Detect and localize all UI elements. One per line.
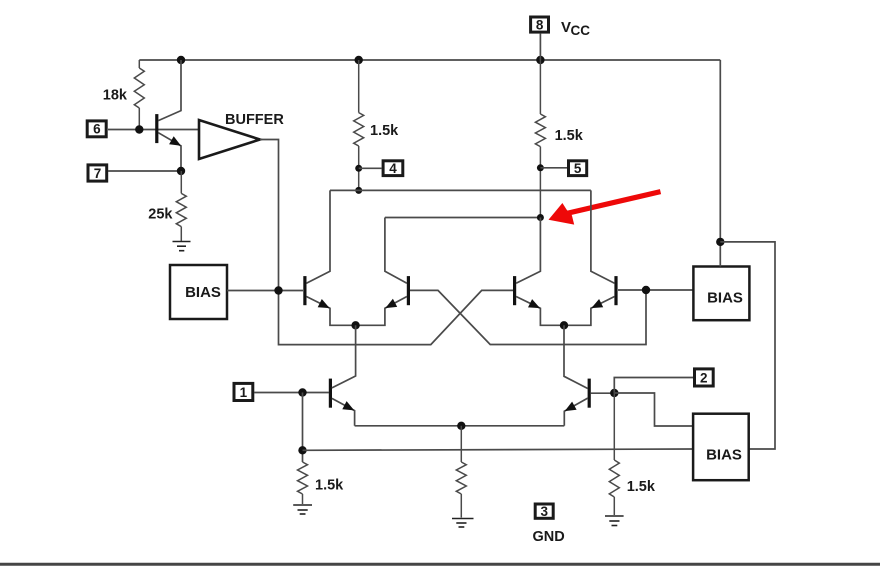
node pin1/R5 junction [298, 388, 306, 396]
svg-text:6: 6 [93, 122, 101, 137]
svg-text:2: 2 [700, 370, 708, 385]
wire pin4 tap [359, 167, 382, 169]
wire pin7 to Q1 emitter node [108, 170, 181, 172]
wire Q5 base to BIAS2 [618, 289, 693, 291]
svg-text:3: 3 [540, 504, 548, 519]
label 18k [103, 87, 128, 103]
svg-text:18k: 18k [103, 87, 128, 103]
pin 4 terminal box [383, 161, 403, 176]
svg-text:1.5k: 1.5k [370, 123, 399, 139]
svg-text:1: 1 [240, 385, 248, 400]
ground G3 [452, 519, 474, 528]
node pin6/R1/base junction [135, 125, 143, 133]
svg-text:GND: GND [533, 529, 565, 545]
wire collector bus Q3/Q4 (pin5 node) [385, 217, 541, 219]
node R3 bottom / collector-bus junction [355, 187, 362, 194]
wire buffer output to Q4 base (cross couple B) [260, 140, 513, 345]
svg-text:5: 5 [574, 161, 582, 176]
label BUFFER [225, 112, 284, 128]
wire pin1 to Q6 base [254, 392, 329, 394]
transistor Q3 (left pair, right) [356, 218, 409, 326]
svg-text:1.5k: 1.5k [627, 479, 656, 495]
wire Q7 base to pin2 node [591, 392, 615, 394]
label 25k [148, 207, 173, 223]
pin 8 terminal box [531, 17, 549, 32]
svg-text:25k: 25k [148, 207, 173, 223]
wire pin1 node down to bottom rail [302, 393, 304, 463]
wire rail right end down to BIAS2 [719, 60, 721, 267]
svg-text:BIAS: BIAS [707, 290, 743, 307]
pin 5 terminal box [569, 161, 587, 176]
label 1.5k bottom right [627, 479, 656, 495]
svg-text:4: 4 [389, 161, 397, 176]
wire pin8 to rail [539, 34, 541, 60]
transistor Q2 (left pair, left) [305, 190, 356, 325]
wire node to pin2 [614, 378, 693, 394]
node pin7/emitter/R25k junction [177, 167, 185, 175]
ground G2 [293, 505, 312, 514]
label VCC [561, 19, 590, 38]
node center emitter bus junction [457, 422, 465, 430]
ground G4 [605, 516, 624, 526]
svg-text:7: 7 [94, 166, 102, 181]
resistor R6 1.5k (bottom center) [456, 426, 466, 518]
resistor R3 1.5k (left load) [354, 60, 364, 190]
node Q5 base / cross couple junction [642, 286, 650, 294]
node rail-R2 junction [355, 56, 363, 64]
svg-text:CC: CC [571, 23, 591, 38]
pin 7 terminal box [88, 165, 107, 181]
bottom border rule [0, 563, 880, 566]
svg-text:8: 8 [536, 17, 544, 32]
svg-text:1.5k: 1.5k [315, 478, 344, 494]
annotation red arrow [549, 192, 661, 225]
block BIAS U2 (left) [170, 265, 227, 319]
pin 6 terminal box [87, 121, 106, 137]
resistor R2 25k [176, 171, 186, 241]
block BIAS U3 (upper right) [693, 267, 749, 321]
wire pin6 to Q1 base [108, 129, 199, 131]
label 1.5k right load [555, 128, 584, 144]
node right pair shared emitter [560, 321, 568, 329]
node R3/pin4 junction [355, 165, 362, 172]
svg-text:BIAS: BIAS [185, 284, 221, 301]
wire Q3 base cross couple A [410, 290, 646, 345]
node R4/pin5 junction [537, 164, 544, 171]
label 1.5k bottom left [315, 478, 344, 494]
node rail-Q1 collector junction [177, 56, 185, 64]
wire far right branch to BIAS3 [720, 242, 775, 449]
wire VCC top rail [139, 59, 720, 61]
transistor Q5 (right pair, right) [564, 190, 616, 325]
node rail-pin8 junction [536, 56, 544, 64]
svg-text:V: V [561, 19, 571, 36]
node arrowed junction (R4 bottom bus) [537, 214, 544, 221]
resistor R5 1.5k (bottom left) [298, 462, 308, 504]
svg-text:BIAS: BIAS [706, 447, 742, 464]
node buffer-output / Q2 base junction [274, 286, 282, 294]
block BIAS U4 (lower right) [693, 414, 749, 481]
transistor Q1 (buffer input NPN) [157, 60, 181, 171]
pin 1 terminal box [234, 383, 253, 400]
resistor R4 1.5k (right load) [535, 60, 545, 218]
label 1.5k left load [370, 123, 399, 139]
transistor Q7 (bottom right NPN) [564, 325, 589, 426]
resistor R7 1.5k (bottom right) [609, 393, 619, 515]
node vcc/BIAS2 top junction [716, 238, 724, 246]
transistor Q6 (bottom left NPN) [330, 325, 355, 426]
ground G1 [173, 242, 191, 251]
wire collector bus Q2/Q5 (pin4 node) [330, 189, 591, 191]
svg-text:BUFFER: BUFFER [225, 112, 284, 128]
label GND [533, 529, 565, 545]
svg-text:1.5k: 1.5k [555, 128, 584, 144]
node bottom rail left junction [298, 446, 306, 454]
pin 3 terminal box [535, 504, 553, 519]
op-amp U1 BUFFER [199, 120, 260, 159]
resistor R1 18k [134, 60, 144, 130]
wire bottom rail to BIAS3 [303, 449, 694, 450]
wire emitter bus Q6/Q7 [355, 425, 565, 427]
wire pin5 tap [540, 167, 567, 169]
pin 2 terminal box [695, 369, 714, 386]
node left pair shared emitter [351, 321, 359, 329]
node pin2/R7/BIAS junction [610, 389, 618, 397]
wire BIAS1 to Q2 base [227, 290, 303, 292]
transistor Q4 (right pair, left) [515, 218, 564, 326]
wire pin2 node to BIAS3 [614, 393, 693, 426]
